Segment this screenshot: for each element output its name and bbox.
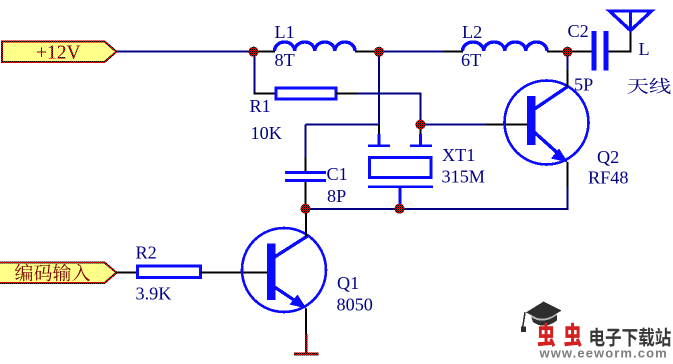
capacitor C1 [285, 171, 326, 174]
svg-text:+12V: +12V [36, 43, 81, 64]
wire Q1 emitter down [305, 309, 307, 335]
pin node3 to C2 [565, 51, 592, 53]
wire +12V to node1 [117, 51, 251, 53]
junction node 6 [395, 204, 405, 214]
svg-text:C2: C2 [568, 21, 589, 41]
transistor Q1 [242, 228, 326, 312]
bottom rail wire [306, 208, 568, 210]
wire Q2 collector to node3 [567, 70, 569, 87]
wire C2 to antenna corner [609, 51, 632, 53]
capacitor C2 [592, 31, 597, 71]
label 天线 [627, 78, 670, 94]
inductor L1 [275, 42, 356, 51]
svg-text:8P: 8P [327, 186, 346, 206]
resistor R2 [138, 266, 201, 278]
pin node1 to L1 [250, 51, 275, 53]
svg-text:L1: L1 [275, 22, 295, 42]
antenna [610, 11, 652, 31]
svg-text:3.9K: 3.9K [136, 284, 172, 304]
resistor R1 [276, 88, 336, 99]
inductor L2 [463, 42, 548, 51]
wire tag to R2 [117, 272, 139, 274]
transistor Q2 [505, 81, 589, 165]
svg-text:R1: R1 [250, 96, 271, 116]
watermark 电子下载站 [590, 328, 670, 347]
svg-text:Q1: Q1 [337, 273, 359, 293]
svg-text:8T: 8T [275, 50, 295, 70]
svg-text:www.eeworm.com: www.eeworm.com [539, 345, 668, 359]
wire node2 down to XT1 [378, 52, 380, 135]
wire Q2 emitter down [567, 162, 569, 187]
svg-text:5P: 5P [574, 75, 593, 95]
power tag +12V [2, 42, 117, 64]
watermark logo graduation cap [521, 302, 562, 332]
ground [305, 334, 308, 353]
svg-text:Q2: Q2 [597, 147, 619, 167]
svg-text:315M: 315M [442, 167, 485, 187]
wire down to C1 [305, 125, 307, 158]
junction node 4 [416, 120, 426, 130]
svg-text:6T: 6T [461, 50, 481, 70]
svg-text:XT1: XT1 [442, 145, 475, 165]
svg-text:RF48: RF48 [588, 168, 628, 188]
wire C1 top to XT1 left lead [306, 124, 381, 126]
junction node 1 [249, 47, 259, 57]
svg-text:L2: L2 [462, 22, 482, 42]
svg-text:8050: 8050 [337, 295, 373, 315]
junction node 3 [563, 47, 573, 57]
junction node 5 [301, 204, 311, 214]
pin to R1 [254, 93, 277, 95]
pin node4 down to XT1 right [420, 125, 422, 136]
svg-text:C1: C1 [327, 164, 348, 184]
junction node 2 [374, 47, 384, 57]
crystal XT1 [368, 134, 433, 205]
net tag 编码输入 [0, 263, 117, 284]
wire node2 to L2 [376, 51, 444, 53]
svg-text:10K: 10K [251, 123, 282, 143]
wire node4 to Q2 base [421, 124, 487, 126]
svg-text:L: L [639, 39, 650, 59]
wire Q1 collector up to rail [305, 213, 307, 237]
svg-text:R2: R2 [136, 243, 157, 263]
wire R1 to node4 [358, 93, 422, 95]
watermark 虫虫 [538, 323, 555, 347]
wire node1 down [254, 52, 256, 95]
